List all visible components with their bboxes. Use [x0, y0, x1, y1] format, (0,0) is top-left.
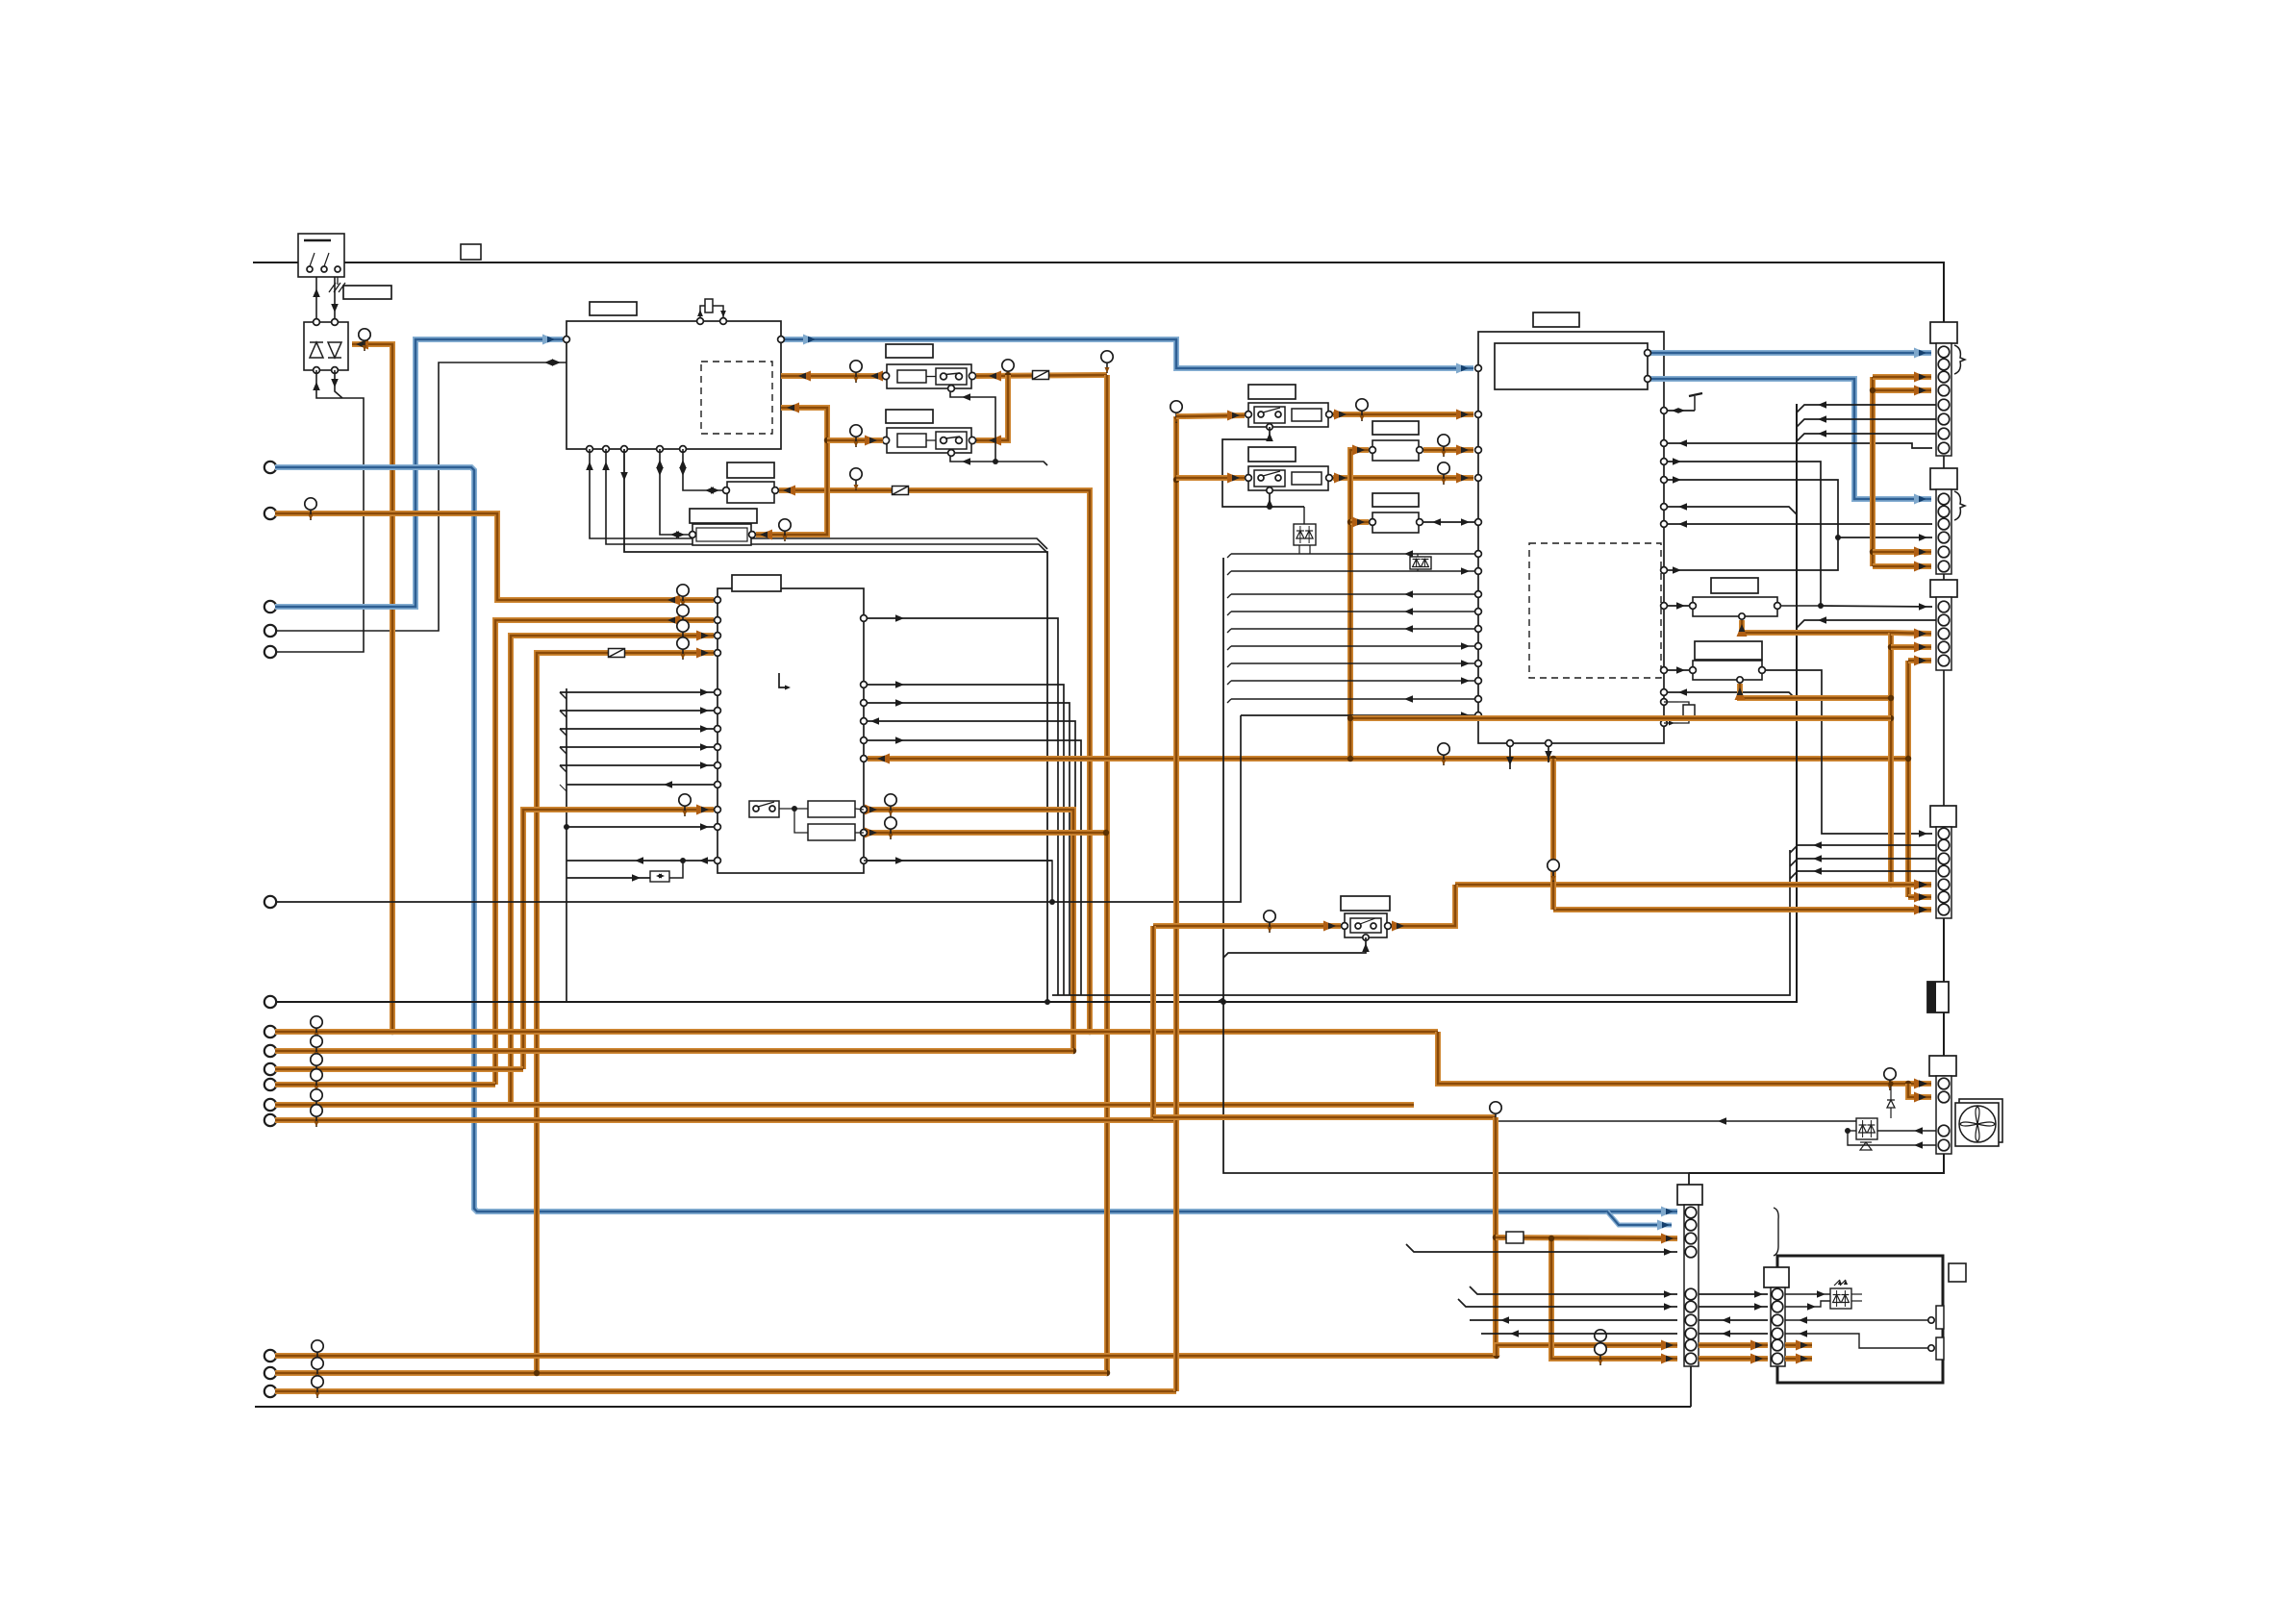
orange junction C801 spine	[1347, 519, 1353, 525]
connector CN204 header	[1930, 806, 1956, 827]
wire CN107 pin3 to TH901	[1785, 1319, 1928, 1321]
diode D902	[1860, 1142, 1872, 1150]
U801 bundle row y672	[1227, 646, 1231, 650]
component C802 box	[1372, 512, 1419, 533]
orange vertical x1199	[1150, 926, 1156, 1117]
connector CN204 pin6	[1938, 891, 1950, 903]
inline jumper J902	[1506, 1232, 1523, 1243]
connector CN205 header	[1929, 1056, 1956, 1076]
U701 inner wiring	[779, 808, 808, 810]
IC block U801 main control box	[1478, 332, 1664, 743]
junction line6 relay spine	[1173, 1117, 1179, 1123]
orange wire C601 feed long	[779, 490, 1090, 1032]
bus junction on line1042	[1045, 999, 1050, 1005]
power plug/switch SW601 box	[298, 234, 344, 277]
connector CN201 pin7	[1938, 428, 1950, 439]
connector CN201 pin3	[1938, 371, 1950, 383]
connector CN204 pin1	[1938, 828, 1950, 839]
U701 row 913 service branch	[566, 877, 650, 879]
wire U601 pin4 to C602	[660, 449, 690, 535]
wire row1346 long	[1470, 1287, 1677, 1294]
connector CN202 shell	[1936, 489, 1951, 574]
U801 right row480	[1664, 462, 1821, 606]
fuse F601	[1033, 371, 1049, 380]
U701 right out row 895 to U801 row744 net	[864, 860, 1052, 862]
connector CN202 pin6	[1938, 561, 1950, 572]
test point TP604	[784, 519, 786, 541]
connector CN202 pin3	[1938, 518, 1950, 530]
orange wire x1947 pin3	[1873, 374, 1931, 380]
connector CN201 pin8	[1938, 442, 1950, 454]
CN201 pin6 wire to bus	[1797, 419, 1936, 427]
connector link 205 down	[1689, 1154, 1944, 1173]
ground symbol under switch	[337, 277, 339, 285]
test point TP623	[315, 1069, 317, 1091]
wire U801 row697 to C804	[1664, 669, 1689, 671]
junction x558 low line2	[534, 1370, 540, 1376]
connector CN204 pin2	[1938, 839, 1950, 851]
junction x1555 low line1	[1494, 1353, 1499, 1359]
test point TP653	[1495, 1102, 1497, 1124]
U701 right out row 770	[864, 740, 1081, 995]
label box U601	[590, 302, 637, 315]
U701 left bus vertical	[566, 688, 567, 1002]
U701 left in row 860	[566, 826, 714, 828]
bundle chamfer to ground bus	[1218, 998, 1223, 1002]
component C602 double box	[692, 524, 751, 545]
U801 right row593	[1664, 537, 1838, 570]
input terminal CN15 low line3	[264, 1386, 276, 1397]
test point TP607	[1106, 351, 1108, 373]
blue wire U801 to CN201 pin1	[1648, 350, 1931, 356]
thermistor TH901	[1936, 1306, 1944, 1329]
connector CN107 header	[1764, 1267, 1789, 1287]
test point TP630	[316, 1340, 318, 1362]
label box RL602	[886, 410, 933, 423]
U701 left orange pin row4 with fuse	[537, 653, 714, 1373]
test point TP631	[316, 1358, 318, 1380]
test point TP707	[890, 817, 892, 839]
wire switch to rectifier right	[334, 277, 336, 322]
label box C804	[1695, 641, 1762, 660]
U801 dashed sub-block	[1529, 543, 1661, 678]
U701 internal arrow glyph	[779, 673, 789, 687]
connector CN202 pin4	[1938, 532, 1950, 543]
CN204 pin2 wire to busB	[1790, 845, 1936, 853]
orange vertical x1555	[1493, 1117, 1498, 1356]
orange wire RL901 out	[1392, 885, 1455, 926]
input terminal circle CN1 blue	[264, 462, 276, 473]
diode D901	[1887, 1100, 1895, 1108]
orange junction relayB branch	[824, 437, 830, 443]
connector CN201 pin6	[1938, 413, 1950, 425]
U701 left out row 895	[566, 860, 714, 862]
orange wire RL901 feed	[1153, 923, 1341, 929]
orange wire C804 bottom feed	[1740, 684, 1891, 698]
surge absorber Z801	[1294, 524, 1316, 545]
test point TP625	[315, 1105, 317, 1127]
orange power spine RL601 to lower lines	[1104, 375, 1110, 1373]
orange vertical x1615	[1550, 759, 1556, 910]
label box RL601	[886, 344, 933, 358]
wire row1373 long	[1470, 1319, 1677, 1321]
fuse F603 on C601 line	[893, 487, 909, 495]
connector CN106 header	[1677, 1185, 1702, 1205]
test point TP622	[315, 1054, 317, 1076]
connector CN205 pin1	[1938, 1078, 1950, 1089]
crystal X801	[1683, 705, 1695, 716]
orange wire CN204 pin5 long	[1455, 882, 1931, 887]
label box RL802	[1248, 447, 1296, 462]
connector CN201 header	[1930, 322, 1957, 343]
junction x1966 row920	[1888, 882, 1894, 887]
wire C802 out to U801	[1423, 521, 1474, 523]
orange wire CN204 pin7 long	[1553, 907, 1931, 912]
U801 bundle row y594	[1227, 571, 1231, 575]
orange wire C802 in	[1350, 519, 1369, 525]
wire CN106 pin4	[1406, 1244, 1677, 1252]
bidir arrows on U601 left data pin	[544, 359, 553, 366]
connector CN201 pin4	[1938, 385, 1950, 396]
CN203 pin2 wire to bus	[1797, 620, 1936, 628]
test point TP620	[315, 1016, 317, 1038]
orange wire row673 to CN203 pin4	[1891, 644, 1931, 650]
U801 left bus bundle vertical	[1223, 558, 1689, 1185]
connector link inline-205	[1943, 1012, 1945, 1056]
orange wire RL801 out to U801	[1333, 412, 1473, 417]
U701 left orange row 842	[523, 810, 714, 1069]
connector CN106 pin9	[1685, 1339, 1697, 1351]
U801 bundle row y618	[1227, 594, 1231, 598]
orange wire fan supply	[1438, 1032, 1931, 1084]
pin RL602 left	[882, 437, 889, 443]
connector CN107 pin6	[1772, 1353, 1783, 1364]
connector CN201 pin1	[1938, 346, 1950, 358]
fan motor icon	[1959, 1099, 2002, 1142]
input terminal CN7 line1	[264, 1026, 276, 1037]
arrow out U701 pin1	[667, 595, 680, 606]
U701 inner resistor R702	[808, 824, 855, 840]
CN204 pin4 wire to busB	[1790, 871, 1936, 879]
M901 external tab	[1949, 1263, 1966, 1282]
U801 bottom stub1	[1509, 743, 1511, 769]
connector CN202 pin2	[1938, 506, 1950, 517]
U701 inner resistor R701	[808, 801, 855, 817]
main ground bus line	[275, 404, 1797, 1002]
U601 bottom pin stubs	[587, 446, 593, 453]
CN204 pin3 wire to busB	[1790, 859, 1936, 866]
connector CN202 pin1	[1938, 493, 1950, 505]
orange vertical x1613 to pin10	[1551, 1238, 1677, 1359]
test point TP702	[682, 605, 684, 627]
connector CN203 shell	[1936, 597, 1951, 670]
orange wire spine to RL801	[1176, 413, 1186, 419]
junction rail789 x1615	[1550, 756, 1556, 762]
connector CN205 pin4	[1938, 1139, 1950, 1151]
orange wire CN106 pin3	[1496, 1237, 1677, 1238]
connector CN106 pin8	[1685, 1328, 1697, 1339]
component C804 box	[1693, 661, 1762, 680]
label box U801	[1533, 312, 1579, 327]
connector CN106 pin3	[1685, 1233, 1697, 1244]
wire row1387	[1699, 1333, 1768, 1335]
test point TP651	[1889, 1068, 1891, 1090]
orange wire C801 out to U801	[1423, 447, 1473, 453]
connector link 204-inline	[1943, 918, 1945, 982]
orange wire RL602 to C602 junction	[827, 437, 883, 443]
junction C801 spine rail789	[1347, 756, 1353, 762]
test point TP608	[855, 425, 857, 447]
blue wire CN1 to lower connector	[275, 467, 1677, 1212]
input terminal CN9 line3	[264, 1063, 276, 1075]
thermistor TH902	[1936, 1337, 1944, 1360]
connector CN202 header	[1930, 468, 1957, 489]
U801 bundle row y636	[1227, 612, 1231, 615]
wire U601 pin5 to C601	[683, 449, 723, 490]
junction x1984 rail789	[1905, 756, 1911, 762]
fuse label tiny box	[461, 244, 481, 260]
test point TP704	[682, 637, 684, 660]
label box C803	[1711, 578, 1758, 593]
U801 bundle row y708	[1227, 681, 1231, 685]
wire U701 row895 drop	[864, 861, 1052, 902]
wire C804 out down to CN204 pin1	[1766, 670, 1932, 834]
connector link 203-204	[1943, 670, 1945, 806]
CN201 pin7 wire to bus	[1797, 434, 1936, 441]
junction x1613 pin3row	[1548, 1236, 1554, 1241]
connector CN202 pin5	[1938, 546, 1950, 558]
test point TP641	[1361, 399, 1363, 421]
orange wire CN106 pin9	[1497, 1345, 1677, 1356]
test point TP701	[682, 585, 684, 607]
test point TP624	[315, 1089, 317, 1112]
test point TP603	[855, 468, 857, 490]
connector CN107 pin3	[1772, 1314, 1783, 1326]
rectifier diode bridge D601	[304, 322, 348, 370]
junction x1947 CN202 pin5	[1870, 549, 1876, 555]
wire CN6 long line	[275, 715, 1241, 902]
connector CN201 pin2	[1938, 359, 1950, 370]
connector CN203 pin4	[1938, 641, 1950, 653]
test point TP621	[315, 1036, 317, 1058]
test point TP602	[310, 498, 312, 520]
input terminal circle CN5	[264, 646, 276, 658]
junction x1150 row866	[1103, 830, 1109, 836]
connector CN204 shell	[1936, 827, 1951, 918]
wire U701 left input row 739	[560, 710, 714, 712]
component C803 box	[1693, 597, 1777, 616]
fuse F701	[609, 649, 625, 658]
U801 inner module box	[1495, 343, 1648, 389]
U801 bundle row y690	[1227, 663, 1231, 667]
orange junction C601 line to line1	[1087, 1029, 1093, 1035]
orange wire x1947 CN202 pin5	[1873, 549, 1931, 555]
connector CN203 pin2	[1938, 614, 1950, 626]
connector CN106 pin4	[1685, 1246, 1697, 1258]
U801 right row527 from bus	[1664, 507, 1797, 514]
bracket glyph	[1774, 1208, 1778, 1256]
orange wire x1984 to CN204 pin6	[1908, 894, 1931, 900]
junction spine line2-lower	[1104, 1370, 1110, 1376]
diode network Z901	[1856, 1118, 1877, 1139]
relay RL601	[887, 364, 971, 388]
orange vertical net x1966	[1888, 633, 1894, 885]
component C801 box	[1372, 440, 1419, 461]
U701 left orange pin row2	[495, 620, 714, 1085]
connector CN205 pin3	[1938, 1125, 1950, 1137]
blue wire branch to CN106 pin2	[1607, 1212, 1672, 1225]
wire CN4 to U601 pin	[275, 362, 539, 631]
test point TP606	[1007, 360, 1009, 382]
test point TP706	[890, 794, 892, 816]
orange wire x1984 to CN203 pin5	[1908, 658, 1931, 663]
connector CN106 pin6	[1685, 1301, 1697, 1312]
test point TP601	[364, 329, 365, 351]
label box C601	[727, 462, 774, 478]
wire U701 left input row 758	[560, 728, 714, 730]
relay RL801 box	[1248, 403, 1328, 427]
orange junction RL601 branch	[1005, 372, 1011, 378]
wire U601 pin1 bus	[590, 449, 1047, 549]
wire C803 out to CN203 pin1	[1781, 605, 1821, 607]
relay B coil wire	[950, 457, 995, 462]
junction spine line5	[1104, 1102, 1110, 1108]
orange wire U601 pin424 to C602 and relayB	[756, 408, 827, 535]
U701 bus bottom chamfer	[566, 1001, 567, 1003]
wire U701 left input row 796	[560, 764, 714, 766]
wire U601 pin2 bus	[606, 449, 1047, 553]
orange wire x1947 CN202 pin6	[1873, 563, 1931, 569]
U801 bundle row y654	[1227, 629, 1231, 633]
orange row1399 link	[1699, 1342, 1768, 1348]
label box C801	[1372, 421, 1419, 435]
junction x1966 row747	[1888, 715, 1894, 721]
input terminal circle CN2 orange	[264, 508, 276, 519]
top power rail wire	[253, 262, 1944, 322]
wire diode net left	[1495, 1120, 1856, 1122]
connector CN201 pin5	[1938, 399, 1950, 411]
orange relay feed spine	[1173, 416, 1179, 1391]
blue wire U601 output to U801	[781, 339, 1473, 368]
connector CN106 shell	[1684, 1205, 1699, 1366]
junction relayD branch	[1173, 477, 1179, 483]
test point TP652	[1269, 911, 1271, 933]
pin U701 row1	[715, 597, 721, 604]
blue wire CN3 to U601 input	[275, 339, 563, 607]
connector CN201 shell	[1936, 343, 1951, 456]
test point TP654	[1599, 1330, 1601, 1352]
surge absorber Z803	[1410, 557, 1431, 569]
orange wire CN2 to U701 pin1	[275, 513, 714, 600]
CN201 brace	[1954, 345, 1965, 374]
pin RL601 left	[882, 372, 889, 379]
orange wire rectifier to line1 vertical	[352, 344, 392, 1032]
input terminal CN14 low line2	[264, 1367, 276, 1379]
orange junction on line1	[390, 1029, 395, 1035]
test point TP660	[1443, 743, 1445, 765]
connector CN203 header	[1930, 580, 1957, 597]
U801 right row499	[1664, 480, 1932, 537]
U701 left orange pin row3	[511, 636, 714, 1105]
input terminal circle CN4	[264, 625, 276, 637]
label box RL901	[1341, 896, 1390, 911]
label box C802	[1372, 493, 1419, 507]
CN201 pin5 wire to bus	[1797, 405, 1936, 412]
test point TP655	[1599, 1343, 1601, 1365]
wire CN107 pin4 to TH902	[1785, 1334, 1928, 1348]
orange wire x1947 pin4	[1873, 387, 1931, 393]
junction row747 at spine1404	[1347, 715, 1353, 721]
input terminal CN8 line2	[264, 1045, 276, 1057]
relay RL802 coil join	[1269, 489, 1271, 507]
IC block U601 main processor box	[566, 321, 781, 449]
test point TP705	[684, 794, 686, 816]
orange wire RL802 out to U801	[1333, 475, 1473, 481]
connector CN107 pin2	[1772, 1301, 1783, 1312]
test point TP703	[682, 620, 684, 642]
connector CN204 pin5	[1938, 879, 1950, 890]
connector CN107 pin5	[1772, 1339, 1783, 1351]
connector CN106 pin1	[1685, 1207, 1697, 1218]
orange wire spine x1947 to pins	[1870, 377, 1876, 566]
U801 right row720 from bus	[1664, 692, 1797, 700]
wire rectifier bottom to input pin CN5	[275, 370, 364, 652]
junction fan branch	[1905, 1081, 1911, 1087]
bottom rail wire	[255, 1406, 1691, 1408]
orange vertical net x1984	[1905, 661, 1911, 897]
input terminal CN11 line5	[264, 1099, 276, 1111]
orange row1413 link	[1699, 1356, 1768, 1362]
orange wire row658 to CN203 pin3	[1891, 633, 1931, 634]
U701 right orange row866	[868, 830, 1106, 836]
bottom-right unit box M901	[1777, 1256, 1943, 1383]
orange wire RL601 to U601	[781, 373, 883, 379]
wire rectifier bottom right stub	[335, 370, 342, 398]
U701 right out row 643	[864, 618, 1058, 995]
wire U601 pin3 bus	[624, 449, 1047, 1002]
connector CN107 pin4	[1772, 1328, 1783, 1339]
U801 bundle row y727	[1227, 699, 1231, 703]
label box C602	[690, 509, 757, 523]
test point TP640	[1175, 401, 1177, 423]
input terminal CN12 line6	[264, 1114, 276, 1126]
fan connector sense wires	[1877, 1130, 1936, 1132]
U701 right orange row842	[868, 810, 1073, 1051]
label box L601	[343, 286, 391, 299]
orange wire RL601 feed	[976, 375, 1107, 376]
input terminal circle CN3 blue	[264, 601, 276, 612]
connector CN107 shell	[1771, 1287, 1785, 1366]
relay coil control wire	[950, 392, 1047, 465]
U801 right row461 to CN201 pin8	[1664, 443, 1932, 448]
orange wire C803 bottom feed	[1742, 620, 1891, 633]
test point TP650	[1552, 860, 1554, 882]
U701 right out row 712	[864, 685, 1064, 995]
pin RL602 right	[969, 437, 975, 443]
U701 right orange rail row 789	[868, 756, 1908, 762]
connector CN203 pin3	[1938, 628, 1950, 639]
connector CN203 pin1	[1938, 601, 1950, 612]
bus line B horizontal	[1052, 850, 1790, 995]
connector CN106 pin2	[1685, 1219, 1697, 1231]
U801 right pin row 427 flag	[1664, 410, 1695, 412]
junction x1966 row726	[1888, 695, 1894, 701]
U801 row 744 pin	[1241, 714, 1474, 716]
test point TP642	[1443, 462, 1445, 485]
orange wire spine to RL802	[1176, 475, 1245, 481]
connector CN204 pin4	[1938, 865, 1950, 877]
relay RL801 coil loop	[1222, 427, 1304, 507]
